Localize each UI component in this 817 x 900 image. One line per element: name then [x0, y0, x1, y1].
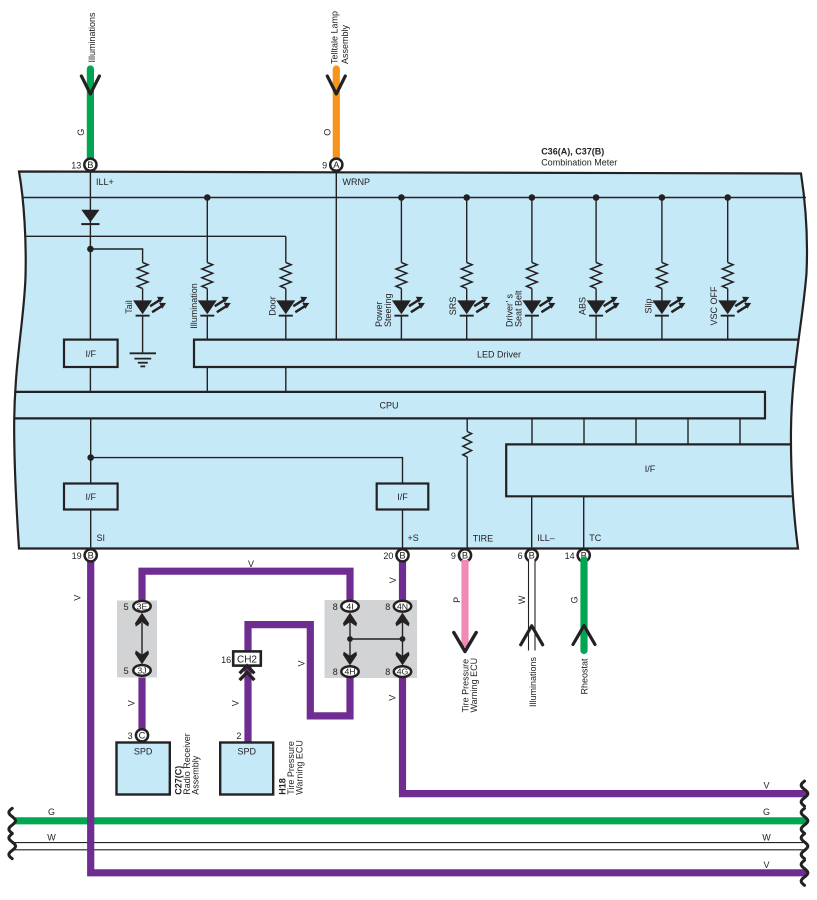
- wire: CPU to I/F bus 1: [531, 418, 533, 444]
- wire: WRNP vertical (pin 9A to LED driver): [335, 172, 337, 340]
- label C36(A), C37(B) Combination Meter: [541, 147, 617, 168]
- svg-text:6: 6: [518, 551, 523, 561]
- wire: V from CH2 up over and into 4H: [248, 625, 350, 716]
- junction dot Driver&#8217; s on line 1: [529, 194, 536, 201]
- svg-text:W: W: [762, 833, 771, 843]
- break symbol V trunk right (upper): [801, 781, 808, 806]
- I/F block U2 (SI): [64, 484, 118, 510]
- wire: Power LED branch vertical: [400, 198, 402, 263]
- junction dot Power on line 1: [398, 194, 405, 201]
- LED ABS: [587, 297, 620, 317]
- wire: tail branch horizontal: [90, 249, 142, 263]
- wire: Door LED branch vertical: [285, 236, 287, 262]
- svg-text:B: B: [462, 551, 468, 561]
- svg-text:I/F: I/F: [397, 492, 408, 502]
- resistor ABS: [591, 263, 602, 289]
- svg-text:Seat Belt: Seat Belt: [513, 290, 523, 327]
- connector block 4I/4N/4H/4G (gray): [325, 600, 418, 678]
- svg-text:W: W: [47, 833, 56, 843]
- resistor Power: [396, 263, 407, 289]
- wire: Power resistor to LED: [400, 289, 402, 301]
- wire: Door resistor to LED: [285, 289, 287, 301]
- junction dot SI branch: [87, 454, 94, 461]
- svg-text:B: B: [399, 551, 405, 561]
- svg-text:Warning ECU: Warning ECU: [469, 658, 479, 713]
- svg-text:Door: Door: [267, 296, 277, 316]
- wire: I/F to TC pin: [583, 496, 585, 547]
- connector C27 pin 3 (C): [136, 729, 148, 741]
- break symbol G trunk right: [801, 808, 808, 833]
- wire: ILL+ vertical (pin 13 to I/F): [89, 172, 91, 340]
- svg-text:V: V: [388, 695, 398, 701]
- svg-text:13: 13: [71, 160, 81, 170]
- junction dot ABS on line 1: [593, 194, 600, 201]
- svg-text:V: V: [231, 700, 241, 706]
- wire: V from connector 3J to C27 pin 3: [138, 672, 145, 734]
- resistor VSC OFF: [722, 263, 733, 289]
- wire: I/F to CPU: [89, 367, 91, 392]
- svg-text:V: V: [388, 577, 398, 583]
- wire: ABS LED to LED driver: [595, 316, 597, 339]
- svg-text:V: V: [763, 860, 769, 870]
- wire: O (Telltale Lamp Assembly) into pin 9A: [333, 69, 340, 160]
- LED Illumination: [198, 297, 231, 317]
- LED SRS: [457, 297, 490, 317]
- svg-text:ILL–: ILL–: [537, 533, 555, 543]
- connector pin 9 (A): [330, 159, 342, 171]
- arrow on O wire: [327, 76, 345, 94]
- I/F block U3 (+S): [377, 484, 429, 510]
- svg-text:8: 8: [385, 667, 390, 677]
- break symbol V trunk right (lower): [801, 860, 808, 885]
- svg-text:V: V: [127, 700, 137, 706]
- arrow on G wire: [81, 76, 99, 94]
- wire: internal line 2 from torn left edge to Door branch: [25, 235, 286, 237]
- svg-text:+S: +S: [408, 533, 419, 543]
- wire: ABS LED branch vertical: [595, 198, 597, 263]
- svg-text:I/F: I/F: [645, 464, 656, 474]
- connector block 3E/3J (gray): [117, 601, 157, 678]
- wire: tail LED to ground: [142, 316, 144, 353]
- wire: SRS LED to LED driver: [466, 316, 468, 339]
- LED VSC OFF: [718, 297, 751, 317]
- resistor TIRE: [463, 432, 472, 457]
- wire: CPU to TIRE resistor: [466, 418, 468, 431]
- combination meter body (torn-edge box): [14, 172, 807, 549]
- wire: Slip resistor to LED: [661, 289, 663, 301]
- label H18 Tire Pressure Warning ECU: [277, 740, 304, 795]
- svg-text:3J: 3J: [137, 666, 146, 676]
- svg-text:SI: SI: [97, 533, 106, 543]
- svg-text:V: V: [72, 595, 82, 601]
- svg-text:B: B: [529, 551, 535, 561]
- wire: CPU to I/F bus 3: [635, 418, 637, 444]
- LED Door: [276, 297, 309, 317]
- svg-text:I/F: I/F: [86, 349, 97, 359]
- break symbol G trunk left: [9, 808, 16, 833]
- resistor SRS: [461, 263, 472, 289]
- wire: V run from pin 19 down and along bottom: [91, 560, 807, 873]
- wire: CPU to I/F bus 4: [687, 418, 689, 444]
- LED Driver&#8217; s: [522, 297, 555, 317]
- label C27(C) Radio Receiver Assembly: [173, 733, 200, 795]
- svg-text:CPU: CPU: [379, 401, 398, 411]
- svg-text:SPD: SPD: [237, 747, 256, 757]
- svg-text:SPD: SPD: [134, 747, 153, 757]
- svg-text:V: V: [297, 660, 307, 666]
- connector CH2 pin 16: [233, 651, 261, 665]
- svg-text:G: G: [48, 807, 55, 817]
- connector 4H pin 8: [341, 666, 358, 677]
- wire: Driver&#8217; s LED branch vertical: [531, 198, 533, 263]
- label Tire Pressure Warning ECU (destination): [461, 658, 480, 713]
- wire: +S I/F to pin 20: [402, 510, 404, 548]
- wire: Illumination resistor to LED: [206, 289, 208, 301]
- svg-text:I/F: I/F: [86, 492, 97, 502]
- wire: V from connector 3E up across to 4I: [142, 571, 350, 604]
- wire: SRS LED branch vertical: [466, 198, 468, 263]
- svg-text:Slip: Slip: [643, 298, 653, 313]
- wire: V from connector 4G down and right: [403, 674, 808, 794]
- svg-text:3E: 3E: [137, 601, 148, 611]
- wire: Driver&#8217; s resistor to LED: [531, 289, 533, 301]
- svg-text:Steering: Steering: [383, 293, 393, 327]
- svg-text:4N: 4N: [397, 601, 408, 611]
- svg-text:SRS: SRS: [448, 297, 458, 316]
- wire: branch to +S I/F: [91, 458, 403, 484]
- svg-text:8: 8: [333, 667, 338, 677]
- svg-text:3: 3: [128, 731, 133, 741]
- resistor Door: [280, 263, 291, 289]
- svg-text:8: 8: [385, 602, 390, 612]
- wire: Slip LED branch vertical: [661, 198, 663, 263]
- svg-text:2: 2: [236, 731, 241, 741]
- svg-text:W: W: [517, 595, 527, 604]
- wire: V from CH2 down to H18 pin 2: [244, 665, 251, 744]
- connector pin 13 (B): [84, 159, 96, 171]
- connector 4N pin 8: [394, 601, 411, 612]
- svg-text:LED Driver: LED Driver: [477, 350, 521, 360]
- diode on ILL+ line: [81, 210, 99, 225]
- label Telltale Lamp Assembly: [329, 11, 350, 64]
- svg-text:5: 5: [124, 602, 129, 612]
- svg-text:C: C: [139, 731, 146, 741]
- I/F block U4 (right interface): [506, 444, 792, 496]
- arrow pair 4N-4G: [396, 613, 410, 666]
- svg-text:4I: 4I: [346, 601, 353, 611]
- resistor Illumination: [202, 263, 213, 289]
- svg-text:O: O: [323, 129, 333, 136]
- svg-text:19: 19: [72, 551, 82, 561]
- connector 4G pin 8: [394, 666, 411, 677]
- wire: G to Rheostat from pin 14: [580, 560, 587, 651]
- wire: Slip LED to LED driver: [661, 316, 663, 339]
- svg-text:Illumination: Illumination: [189, 283, 199, 329]
- svg-text:9: 9: [451, 551, 456, 561]
- wire: SRS resistor to LED: [466, 289, 468, 301]
- junction dot Illumination on line 1: [204, 194, 211, 201]
- LED Power: [392, 297, 425, 317]
- svg-text:Tail: Tail: [124, 300, 134, 314]
- wire: VSC OFF LED to LED driver: [727, 316, 729, 339]
- svg-text:9: 9: [322, 160, 327, 170]
- wire: Power LED to LED driver: [400, 316, 402, 339]
- connector 3J pin 5: [133, 665, 150, 676]
- svg-text:5: 5: [124, 666, 129, 676]
- CPU block: [14, 392, 765, 419]
- connector 3E pin 5: [133, 601, 150, 612]
- svg-text:G: G: [763, 807, 770, 817]
- wire: W to Illuminations from pin 6 (outline wire): [528, 560, 535, 651]
- I/F block U1 (ILL+ interface): [64, 340, 118, 367]
- wire: Illumination LED branch vertical: [206, 198, 208, 263]
- svg-text:16: 16: [221, 655, 231, 665]
- arrow pair 3E-3J: [135, 613, 149, 664]
- junction dot Slip on line 1: [659, 194, 666, 201]
- arrow (continuation) on W wire: [521, 626, 543, 645]
- wire: ABS resistor to LED: [595, 289, 597, 301]
- wire: CPU to I/F bus 2: [583, 418, 585, 444]
- wire: CPU to I/F bus 5: [739, 418, 741, 444]
- connector pin 14 (B): [578, 549, 590, 561]
- resistor Slip: [657, 263, 668, 289]
- wire: crosslink between 4I and 4N columns: [350, 638, 403, 640]
- arrow (continuation) on G wire: [573, 626, 595, 645]
- svg-text:Illuminations: Illuminations: [87, 12, 97, 63]
- junction dot 4N column: [400, 636, 406, 642]
- radio receiver assembly C27 block: [117, 743, 170, 795]
- connector pin 20 (B): [396, 549, 408, 561]
- svg-text:VSC OFF: VSC OFF: [709, 286, 719, 326]
- svg-text:P: P: [452, 597, 462, 603]
- wire: W trunk (bottom, outline wire): [14, 842, 807, 850]
- junction dot on ILL+ (tail branch): [87, 246, 94, 253]
- double chevron (shield continuation) below CH2: [240, 666, 255, 680]
- connector 4I pin 8: [341, 601, 358, 612]
- wire: Illumination LED to LED driver: [206, 316, 208, 339]
- LED tail: [133, 297, 166, 317]
- break symbol W trunk right: [801, 834, 808, 859]
- connector pin 9 (B): [459, 549, 471, 561]
- wire: CPU to SI I/F: [90, 418, 92, 483]
- svg-text:Illuminations: Illuminations: [528, 656, 538, 707]
- wire: V from pin 20 into connector 4N: [399, 560, 406, 604]
- svg-text:B: B: [88, 551, 94, 561]
- wire: G trunk (bottom): [15, 817, 808, 824]
- svg-text:G: G: [76, 129, 86, 136]
- svg-text:WRNP: WRNP: [343, 177, 371, 187]
- wire: VSC OFF LED branch vertical: [727, 198, 729, 263]
- svg-text:V: V: [763, 781, 769, 791]
- svg-text:Assembly: Assembly: [340, 24, 350, 64]
- svg-text:4G: 4G: [397, 667, 409, 677]
- wire: G (Illuminations) into pin 13: [87, 69, 94, 160]
- tire pressure warning ECU H18 block: [220, 743, 273, 795]
- svg-text:14: 14: [565, 551, 575, 561]
- LED Slip: [652, 297, 685, 317]
- svg-text:C36(A), C37(B): C36(A), C37(B): [541, 147, 604, 157]
- svg-text:Rheostat: Rheostat: [580, 658, 590, 695]
- svg-text:20: 20: [383, 551, 393, 561]
- wire: I/F to ILL- pin: [531, 496, 533, 547]
- wire: Door LED to LED driver: [285, 316, 287, 339]
- junction dot 4I column: [347, 636, 353, 642]
- svg-text:G: G: [569, 596, 579, 603]
- svg-text:Assembly: Assembly: [191, 755, 201, 795]
- svg-text:TC: TC: [589, 533, 601, 543]
- svg-text:B: B: [87, 160, 93, 170]
- svg-text:ABS: ABS: [578, 297, 588, 315]
- wire: tail resistor to LED: [142, 289, 144, 301]
- connector pin 6 (B): [526, 549, 538, 561]
- svg-text:Combination Meter: Combination Meter: [541, 158, 617, 168]
- wire: LED driver to CPU (door col): [285, 367, 287, 392]
- wire: Driver&#8217; s LED to LED driver: [531, 316, 533, 339]
- junction dot VSC OFF on line 1: [724, 194, 731, 201]
- resistor Driver&#8217; s: [527, 263, 538, 289]
- svg-text:4H: 4H: [344, 667, 355, 677]
- arrow on P wire: [454, 633, 476, 652]
- svg-text:TIRE: TIRE: [473, 534, 494, 544]
- wire: internal bus line 1 (ILL+ / WRNP rail): [23, 197, 806, 199]
- break symbol W trunk left: [9, 834, 16, 859]
- wire: VSC OFF resistor to LED: [727, 289, 729, 301]
- arrow pair 4I-4H: [343, 613, 357, 666]
- wire: P to Tire Pressure Warning ECU from pin 9: [461, 560, 468, 647]
- svg-text:ILL+: ILL+: [96, 177, 114, 187]
- svg-text:8: 8: [333, 602, 338, 612]
- svg-text:V: V: [248, 559, 254, 569]
- resistor tail: [137, 263, 148, 289]
- ground: [130, 353, 156, 366]
- junction dot SRS on line 1: [463, 194, 470, 201]
- wire: LED driver to CPU (illumination col): [206, 367, 208, 392]
- connector pin 19 (B): [85, 549, 97, 561]
- svg-text:Warning ECU: Warning ECU: [295, 740, 305, 795]
- wire: SI I/F to pin 19: [90, 510, 92, 548]
- svg-text:A: A: [333, 160, 340, 170]
- svg-text:Telltale Lamp: Telltale Lamp: [329, 11, 339, 64]
- LED Driver block: [194, 340, 798, 367]
- wire: TIRE resistor to pin 9: [466, 457, 468, 548]
